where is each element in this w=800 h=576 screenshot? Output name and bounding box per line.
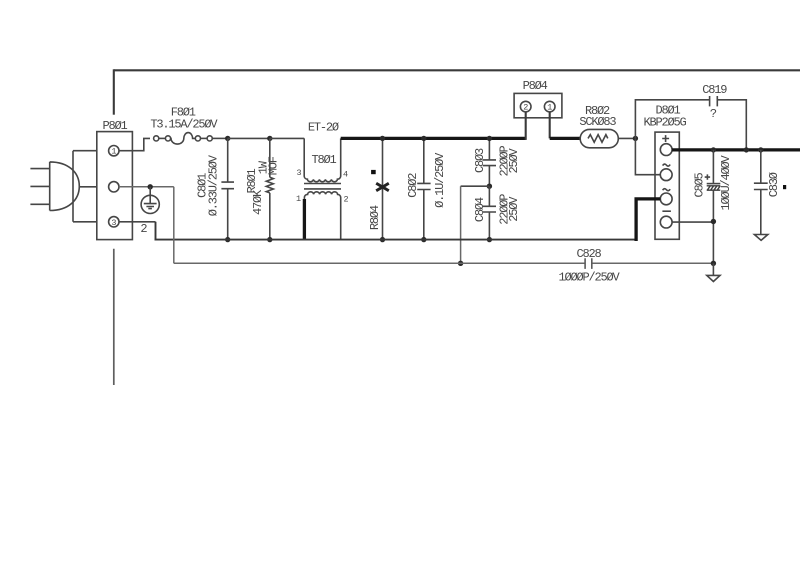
svg-text:C83Ø: C83Ø: [767, 172, 781, 197]
node R804 top: [380, 136, 385, 141]
wire earth node down to return line: [173, 187, 175, 263]
B+ output wire (bold): [672, 148, 800, 151]
svg-text:2: 2: [523, 103, 528, 113]
svg-text:3: 3: [111, 218, 116, 228]
bridge ~ pin (lower): [660, 189, 672, 205]
wire pin2 stub to earth node: [119, 186, 150, 188]
svg-text:Ø.33U/25ØV: Ø.33U/25ØV: [206, 154, 220, 216]
svg-text:T3.15A/25ØV: T3.15A/25ØV: [150, 117, 218, 131]
svg-text:KBP2Ø5G: KBP2Ø5G: [643, 116, 686, 130]
pin 2 (middle) of P801: [109, 182, 119, 192]
bridge + pin: [660, 135, 672, 155]
node at R801 top: [267, 136, 272, 141]
wire node down to bridge pin2: [635, 138, 660, 174]
svg-text:3: 3: [296, 168, 301, 178]
top winding: [304, 138, 341, 181]
wire bottom rail P801 pin3 to bridge: [132, 221, 155, 223]
svg-text:C8Ø3: C8Ø3: [473, 148, 487, 173]
bridge ~ pin (upper): [660, 164, 672, 181]
wire pin1 to fuse: [132, 138, 150, 150]
wire T801 pin1 bold drop: [303, 199, 306, 240]
svg-text:C8Ø2: C8Ø2: [406, 173, 420, 198]
svg-text:1ØØØP/25ØV: 1ØØØP/25ØV: [558, 271, 620, 285]
fusible resistor R804: [368, 138, 389, 239]
svg-text:Ø.1U/25ØV: Ø.1U/25ØV: [433, 152, 447, 208]
wire plug bracket: [73, 151, 97, 222]
node C802 top: [421, 136, 426, 141]
bridge - pin: [660, 211, 672, 228]
wire P804 pin1 to R802 (bold): [550, 137, 581, 140]
bridge rectifier D801 KBP205G: [643, 104, 686, 240]
capacitor C803: [473, 138, 521, 186]
capacitor C830: [754, 147, 786, 234]
node on earth line: [458, 261, 463, 266]
wire R802 out to node: [618, 137, 635, 139]
connector P801: [97, 119, 133, 239]
thermistor R802 SCK083: [579, 104, 618, 148]
svg-text:1: 1: [296, 194, 301, 204]
svg-text:C819: C819: [702, 83, 727, 97]
resistor R801 470K 1W MOF: [245, 138, 281, 239]
capacitor C801: [196, 138, 234, 239]
svg-text:25ØV: 25ØV: [507, 148, 521, 174]
core lines: [304, 184, 341, 189]
svg-text:1: 1: [547, 103, 552, 113]
node C801 bottom: [225, 237, 230, 242]
line-filter transformer T801 ET-20: [296, 120, 349, 239]
wire pin3 stub: [119, 221, 132, 223]
svg-text:25ØV: 25ØV: [507, 196, 521, 222]
safety mark for C830: [783, 185, 786, 189]
wire main rail T801 pin4 to P804 (bold): [341, 137, 526, 140]
AC plug symbol: [30, 162, 79, 211]
pin 1 of P801: [109, 146, 119, 157]
wire R801 top to T801 pin3: [270, 137, 304, 139]
node at C801 top: [225, 136, 230, 141]
svg-text:2: 2: [140, 222, 147, 236]
pin 3 of P801: [109, 217, 119, 228]
svg-text:?: ?: [710, 107, 717, 121]
svg-text:R8Ø4: R8Ø4: [368, 205, 382, 230]
capacitor C804: [473, 186, 521, 239]
wire earth node to corner: [150, 186, 174, 188]
dangling stub below P801: [113, 249, 115, 385]
svg-text:P8Ø4: P8Ø4: [523, 79, 548, 93]
svg-text:1: 1: [111, 147, 116, 157]
svg-text:C828: C828: [576, 247, 601, 261]
node C803/C804 midpoint: [487, 184, 492, 189]
wire fuse to C801 node: [212, 137, 227, 139]
svg-text:C8Ø5: C8Ø5: [693, 173, 707, 198]
return line (earth): [174, 262, 714, 264]
capacitor C802: [406, 138, 447, 239]
svg-text:2: 2: [343, 195, 348, 205]
svg-text:T8Ø1: T8Ø1: [311, 153, 336, 167]
node C805 at minus wire: [711, 219, 716, 224]
wire pin1 stub to box edge: [119, 150, 132, 152]
svg-text:SCKØ83: SCKØ83: [579, 115, 616, 129]
node R801 bottom: [267, 237, 272, 242]
wire bottom rail: [155, 222, 637, 240]
node C805 at return line: [711, 261, 716, 266]
svg-text:47ØK: 47ØK: [251, 189, 265, 215]
node R804 bottom: [380, 237, 385, 242]
wire top-left vertical drop to P801: [113, 69, 115, 114]
capacitor C819: [702, 83, 746, 150]
wire node up and over to C819: [635, 100, 709, 139]
ground symbol below C830: [754, 235, 767, 241]
wire bold riser to bridge pin3: [636, 199, 660, 241]
svg-text:P8Ø1: P8Ø1: [102, 119, 127, 133]
pin 2 of P804: [520, 101, 531, 112]
wire C803/C804 mid to earth line: [461, 185, 490, 187]
pin 1 of P804: [544, 101, 555, 112]
safety mark for R804: [371, 170, 376, 174]
node C819 at B+: [744, 147, 749, 152]
svg-text:1ØØU/4ØØV: 1ØØU/4ØØV: [719, 154, 733, 210]
earth symbol at P801 pin2: [141, 184, 159, 213]
node C803 top: [487, 136, 492, 141]
capacitor C828 in return line: [558, 247, 620, 285]
node C804 bottom: [487, 237, 492, 242]
svg-text:4: 4: [343, 169, 348, 179]
connector P804: [514, 79, 562, 118]
wire P804 pin1 drop and jumper to R802: [549, 112, 551, 138]
wire P804 pin2 drop to rail: [525, 112, 527, 140]
bridge minus output wire: [672, 221, 713, 223]
bottom winding: [304, 192, 340, 240]
electrolytic capacitor C805: [693, 147, 734, 263]
svg-text:MOF: MOF: [266, 156, 280, 175]
node R802 output: [633, 136, 638, 141]
wire C801 to R801 top: [228, 137, 270, 139]
ground symbol below C805: [707, 263, 720, 281]
wire drop to earth return line: [460, 186, 462, 263]
svg-text:ET-2Ø: ET-2Ø: [308, 120, 339, 134]
wire top horizontal net: [114, 69, 800, 71]
svg-text:C8Ø4: C8Ø4: [473, 197, 487, 222]
fuse F801 T3.15A/250V: [150, 106, 218, 144]
node C802 bottom: [421, 237, 426, 242]
